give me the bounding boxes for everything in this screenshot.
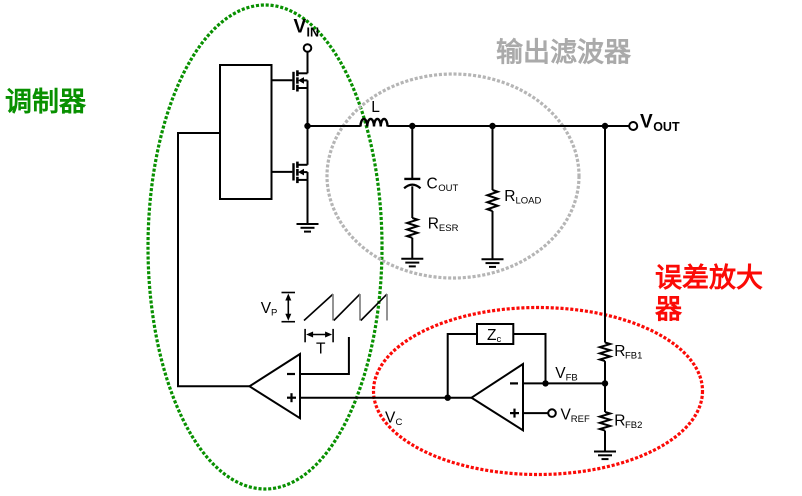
svg-text:LOAD: LOAD — [516, 196, 542, 207]
svg-text:器: 器 — [654, 295, 683, 325]
svg-text:R: R — [614, 413, 625, 430]
svg-text:R: R — [504, 188, 515, 205]
svg-text:L: L — [371, 99, 380, 116]
node SW — [304, 123, 310, 129]
svg-text:C: C — [396, 417, 403, 428]
svg-text:误差放大: 误差放大 — [655, 262, 763, 293]
modulator region ellipse (green dotted) — [148, 5, 382, 489]
ground under RESR — [401, 259, 423, 267]
wire CMP minus input to ramp — [300, 337, 349, 374]
ground under RFB2 — [594, 452, 616, 460]
svg-text:C: C — [427, 176, 438, 193]
channel segments — [296, 70, 299, 76]
node at COUT branch — [409, 123, 415, 129]
svg-text:T: T — [316, 341, 326, 358]
body arrow — [303, 171, 308, 173]
drop 2 — [359, 294, 361, 320]
gate bar — [292, 72, 294, 90]
svg-text:FB: FB — [566, 373, 578, 384]
channel segments — [296, 162, 299, 168]
body arrow — [303, 79, 308, 81]
svg-text:FB2: FB2 — [625, 420, 642, 431]
wire RLOAD to ground — [492, 211, 494, 259]
wire U2 minus input to divider — [523, 382, 605, 384]
svg-text:调制器: 调制器 — [5, 87, 87, 117]
svg-text:V: V — [640, 112, 653, 133]
wire COUT to RESR — [411, 186, 413, 218]
svg-text:OUT: OUT — [653, 120, 680, 134]
svg-text:OUT: OUT — [438, 183, 458, 194]
ground under RLOAD — [482, 259, 504, 267]
impedance block Zc — [477, 324, 513, 344]
gate bar — [292, 163, 294, 180]
node VC — [445, 395, 451, 401]
VOUT terminal — [629, 122, 637, 130]
svg-text:ESR: ESR — [439, 223, 459, 234]
wire VOUT node down to RFB1 — [604, 126, 606, 343]
drop 3 — [386, 294, 388, 320]
inductor L — [361, 119, 388, 127]
resistor RESR — [407, 218, 417, 238]
output filter region ellipse (gray dotted) — [327, 74, 579, 278]
svg-text:P: P — [271, 308, 277, 319]
wire RFB1 to VFB node — [604, 361, 606, 412]
source stub — [298, 179, 308, 181]
driver block U1 — [220, 65, 272, 199]
svg-text:输出滤波器: 输出滤波器 — [496, 37, 632, 68]
svg-text:REF: REF — [571, 414, 590, 425]
drop 1 — [332, 294, 334, 320]
wire inductor to VOUT — [388, 125, 630, 127]
wire Zc left to VC node — [448, 334, 477, 398]
node at RLOAD branch — [489, 123, 495, 129]
ramp 3 — [361, 294, 387, 320]
gate wire — [272, 171, 293, 173]
wire Zc right to minus input — [513, 334, 545, 383]
ramp 1 — [304, 294, 333, 320]
node at feedback join — [542, 380, 548, 386]
wire VIN to Q1 drain — [307, 52, 309, 74]
drain stub — [298, 72, 308, 74]
svg-text:FB1: FB1 — [625, 351, 642, 362]
ramp 2 — [334, 294, 360, 320]
wire CMP plus input / VC line to error amp — [300, 397, 472, 399]
transistor Q1 (high-side MOSFET) — [272, 70, 308, 91]
wire U2 plus input to VREF — [523, 412, 548, 414]
minus sign U2 — [510, 382, 518, 384]
gate wire — [272, 79, 293, 81]
capacitor COUT — [404, 179, 420, 188]
svg-text:V: V — [385, 409, 396, 426]
ground under Q2 — [297, 224, 319, 232]
VIN terminal — [304, 44, 312, 52]
svg-text:R: R — [428, 215, 439, 232]
drain stub — [298, 164, 308, 166]
svg-text:IN: IN — [307, 26, 320, 40]
wire SW node to Q2 drain — [307, 126, 309, 165]
svg-text:Z: Z — [487, 327, 496, 344]
svg-text:c: c — [497, 334, 502, 345]
source stub — [298, 87, 308, 89]
resistor RLOAD — [487, 190, 497, 211]
op-amp CMP (PWM comparator) — [250, 354, 301, 418]
node VFB on divider — [602, 380, 608, 386]
node at feedback branch — [602, 123, 608, 129]
wire VOUT node to COUT — [411, 126, 413, 179]
minus sign CMP — [287, 373, 295, 375]
VREF terminal — [548, 409, 556, 417]
T measure arrow — [305, 329, 333, 342]
resistor RFB2 — [600, 412, 610, 431]
svg-text:V: V — [294, 17, 307, 38]
Vp measure arrow — [282, 293, 296, 322]
op-amp U2 (error amplifier) — [472, 364, 524, 430]
wire SW to inductor — [308, 125, 361, 127]
transistor Q2 (low-side MOSFET) — [272, 162, 308, 184]
sawtooth ramp waveform — [304, 294, 387, 320]
plus sign CMP — [287, 397, 296, 399]
wire RESR to ground — [411, 238, 413, 259]
plus sign U2 — [510, 412, 519, 414]
wire driver input from comparator — [178, 133, 250, 386]
wire Q2 source to ground — [307, 180, 309, 224]
wire Q1 source to SW node — [307, 88, 309, 126]
wire VOUT node to RLOAD — [492, 126, 494, 190]
error amplifier region ellipse (red dotted) — [374, 308, 703, 475]
resistor RFB1 — [600, 343, 610, 362]
svg-text:R: R — [614, 343, 625, 360]
wire RFB2 to ground — [604, 431, 606, 452]
